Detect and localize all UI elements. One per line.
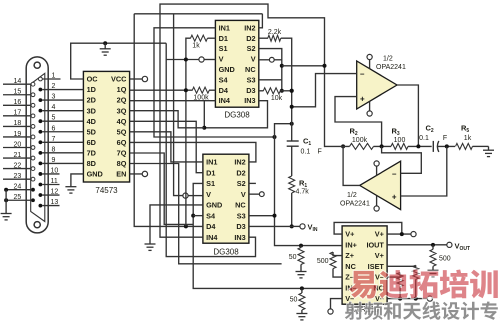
DB25 pin 9	[39, 162, 43, 166]
svg-text:100: 100	[394, 137, 406, 144]
svg-text:IN1: IN1	[206, 158, 217, 167]
wire 2.2k to C1	[281, 38, 292, 141]
svg-text:7: 7	[52, 136, 56, 143]
resistor 50 (IN+)	[298, 248, 304, 265]
stub wire pin 13	[42, 205, 59, 207]
wire IN1 U2 to S3 column	[154, 28, 275, 137]
svg-text:7Q: 7Q	[117, 148, 127, 157]
wire rail A to R2	[325, 145, 350, 147]
wire ISET resistor down	[415, 279, 417, 299]
wire pin9 to 8D	[42, 162, 83, 164]
svg-text:22: 22	[14, 162, 22, 169]
wire V U2 right	[259, 59, 269, 61]
DB25 pin 4	[39, 109, 43, 113]
svg-text:5D: 5D	[87, 127, 96, 136]
svg-text:4.7k: 4.7k	[296, 189, 310, 196]
svg-text:IN4: IN4	[206, 233, 218, 242]
wire D3 U2 to 10k	[259, 90, 264, 92]
wire R5 to ground	[473, 145, 489, 147]
wire V+ right	[387, 233, 411, 235]
resistor 500 (Z)	[330, 252, 336, 269]
svg-text:IN+: IN+	[345, 240, 357, 249]
junction 100k / bus	[184, 88, 188, 92]
wire S3 U2	[259, 79, 282, 81]
wire ISET	[387, 265, 416, 266]
wire 2Q to IN4 U2	[130, 100, 216, 102]
wire pin 19	[3, 136, 31, 138]
wire pin 22	[3, 168, 31, 170]
svg-text:4: 4	[52, 104, 56, 111]
svg-text:1Q: 1Q	[117, 85, 127, 94]
svg-text:NC: NC	[235, 201, 246, 210]
svg-text:D2: D2	[246, 34, 255, 43]
svg-text:D3: D3	[246, 86, 255, 95]
wire 5Q to IN1 U3	[130, 132, 203, 162]
wire pin6 to 5D	[42, 131, 83, 133]
svg-text:10k: 10k	[271, 95, 283, 102]
wire IN+ row to XTR	[299, 245, 342, 247]
wire EN	[130, 173, 143, 175]
svg-text:24: 24	[14, 184, 22, 191]
wire pin 24	[6, 189, 31, 191]
svg-text:D1: D1	[206, 168, 215, 177]
wire rail A (IN4 U3 to R2 node)	[160, 4, 325, 237]
svg-text:GND: GND	[206, 201, 222, 210]
wire IOUT to VOUT	[387, 244, 447, 246]
svg-text:3: 3	[52, 94, 56, 101]
terminal VIN	[300, 224, 305, 229]
svg-text:14: 14	[14, 78, 22, 85]
svg-text:V: V	[219, 55, 224, 64]
svg-text:17: 17	[14, 110, 22, 117]
ground (74573)	[65, 186, 76, 188]
wire V- row5	[387, 273, 400, 278]
junction rail A / V row	[323, 64, 327, 68]
svg-text:+: +	[392, 193, 397, 202]
stub wire pin 1	[42, 78, 60, 80]
wire IN- row to XTR	[340, 287, 342, 289]
svg-text:IOUT: IOUT	[366, 240, 384, 249]
terminal (V- right)	[427, 296, 432, 301]
svg-text:20: 20	[14, 141, 22, 148]
svg-text:S4: S4	[206, 211, 216, 220]
svg-text:5: 5	[52, 115, 56, 122]
junction S4 U3	[191, 214, 195, 218]
resistor 1k	[191, 35, 208, 41]
svg-text:D2: D2	[236, 168, 245, 177]
wire V terminal to U3	[188, 195, 203, 197]
wire S3 U3	[249, 215, 275, 217]
DB25 pin 11	[39, 183, 43, 187]
svg-text:DG308: DG308	[213, 248, 239, 257]
svg-text:OPA2241: OPA2241	[340, 201, 370, 208]
wire pin 20	[3, 147, 31, 149]
ground (top rail)	[104, 43, 106, 49]
wire 4Q to D1 U3	[130, 121, 203, 172]
svg-text:F: F	[443, 135, 447, 142]
svg-text:21: 21	[14, 152, 22, 159]
wire pin8 to 7D	[42, 152, 83, 154]
wire pin 17	[3, 115, 31, 117]
DB25 pin 3	[39, 98, 43, 102]
junction 10k / C1 column	[290, 89, 294, 93]
DB25 pin 20 (open)	[31, 146, 35, 150]
junction top rail / ground	[103, 41, 107, 45]
wire op-amp2 + input	[401, 146, 447, 196]
terminal V (U3 left)	[183, 193, 188, 198]
svg-text:4D: 4D	[87, 117, 96, 126]
svg-text:1/2: 1/2	[347, 192, 357, 199]
wire D2 U2 to 2.2k	[259, 37, 268, 39]
DB25 pin 25	[31, 198, 35, 202]
wire pin 18	[3, 125, 31, 127]
svg-text:15: 15	[14, 89, 22, 96]
wire V- bottom row	[387, 298, 427, 300]
wire 10k node to op-amp1 minus	[292, 74, 357, 107]
wire pin 25	[6, 199, 31, 201]
DB25 pin 8	[39, 151, 43, 155]
resistor 2.2k	[268, 35, 281, 41]
wire rail B drop to D4 U3	[134, 14, 203, 227]
svg-text:–: –	[360, 70, 365, 79]
DB25 top mounting hole	[34, 62, 40, 68]
junction 10k row	[280, 89, 284, 93]
wire ground rail to IN3 U3	[166, 43, 255, 256]
svg-text:IN3: IN3	[244, 96, 255, 105]
wire V U3 right	[249, 193, 259, 195]
DB25 pin 12	[39, 193, 43, 197]
svg-text:NC: NC	[245, 65, 256, 74]
op-amp U4b 1/2 OPA2241	[360, 161, 401, 209]
wire op-amp2 output to R2 node	[343, 146, 360, 185]
wire S4 U3	[193, 215, 203, 217]
svg-text:IN1: IN1	[219, 23, 230, 32]
DB25 inner D-face outline	[31, 73, 45, 221]
svg-text:50: 50	[290, 297, 298, 304]
wire 6Q to IN2 U3	[130, 142, 256, 162]
svg-text:DG308: DG308	[224, 111, 250, 120]
DB25 pin 2	[39, 88, 43, 92]
wire V terminal to U2	[204, 59, 215, 61]
analog switch U2 DG308	[215, 20, 258, 107]
junction pin 25	[4, 198, 8, 202]
junction V row / bus	[184, 58, 188, 62]
wire R2 to R3	[374, 145, 392, 147]
svg-text:2Q: 2Q	[117, 96, 127, 105]
wire C2 to R5	[438, 145, 455, 147]
svg-text:–: –	[392, 170, 397, 179]
DB25 pin 22 (open)	[31, 167, 35, 171]
wire VIN to terminal	[292, 225, 300, 227]
resistor R5 1k	[456, 143, 473, 149]
wire S2 U2 box	[259, 49, 282, 91]
DB25 pin 21 (open)	[31, 156, 35, 160]
wire R3 to C2	[408, 145, 432, 147]
DB25 pin 18 (open)	[31, 125, 35, 129]
terminal V+ supply	[411, 232, 416, 237]
DB25 pin 19 (open)	[31, 135, 35, 139]
svg-text:23: 23	[14, 173, 22, 180]
junction R2 left / op-amp2 output	[341, 144, 345, 148]
wire pin5 to 4D	[42, 120, 83, 122]
junction C1 column / S3 branch	[290, 122, 294, 126]
wire V terminal to box	[274, 59, 282, 61]
terminal V (U2 right)	[269, 57, 274, 62]
svg-text:0.1: 0.1	[419, 135, 429, 142]
DB25 pin 15 (open)	[31, 93, 35, 97]
junction V terminal row	[280, 64, 284, 68]
junction wire C / S3 column	[273, 135, 277, 139]
wire IN4-IN3 loop U2	[204, 101, 267, 128]
terminal EN	[142, 171, 147, 176]
wire rail B	[134, 13, 262, 15]
wire 1Q to 100k	[130, 89, 193, 91]
junction S3 column	[273, 214, 277, 218]
svg-text:0.1: 0.1	[301, 149, 311, 156]
DB25 pin 5	[39, 119, 43, 123]
ground (50 IN+)	[296, 271, 307, 273]
wire V- resistor down	[399, 287, 401, 300]
svg-text:ISET: ISET	[368, 262, 385, 271]
wire 8Q	[130, 164, 282, 264]
ground (DB25 pins 24-25)	[1, 213, 12, 215]
capacitor C1	[287, 140, 299, 142]
junction R2/R3 feedback node	[380, 144, 384, 148]
svg-text:S1: S1	[206, 179, 215, 188]
svg-text:S3: S3	[247, 75, 256, 84]
wire S1 U3 to IN- row	[193, 183, 340, 288]
svg-text:1/2: 1/2	[383, 56, 393, 63]
svg-text:2: 2	[52, 83, 56, 90]
svg-text:4Q: 4Q	[117, 117, 127, 126]
wire 1k-100k bus	[186, 38, 191, 226]
stub wire pin 12	[42, 194, 59, 196]
svg-text:11: 11	[51, 178, 58, 185]
wire rail B branch to V terminal U3	[174, 14, 183, 196]
svg-text:IN4: IN4	[219, 96, 231, 105]
watermark gray text 射频和天线设计专家	[345, 301, 500, 319]
svg-text:S3: S3	[237, 211, 246, 220]
svg-text:5Q: 5Q	[117, 127, 127, 136]
svg-text:OC: OC	[87, 75, 99, 84]
ground (U3)	[145, 243, 156, 245]
svg-text:+: +	[360, 95, 365, 104]
DB25 pin 14 (open)	[31, 82, 35, 86]
junction V- row	[398, 297, 402, 301]
svg-text:7D: 7D	[87, 148, 96, 157]
svg-text:S2: S2	[247, 44, 256, 53]
ground (50 IN-)	[296, 313, 307, 315]
svg-text:NC: NC	[345, 262, 356, 271]
wire Z+ to 500	[333, 252, 342, 256]
DB25 pin 23 (open)	[31, 177, 35, 181]
svg-text:74573: 74573	[95, 186, 118, 195]
svg-text:13: 13	[51, 199, 59, 206]
U4a bottom supply terminal	[369, 102, 371, 112]
wire rail B to IN2 U2	[259, 14, 263, 28]
wire pin2 to 1D	[42, 89, 83, 91]
wire pin7 to 6D	[42, 141, 83, 143]
resistor 50 (IN-)	[299, 293, 305, 310]
resistor 100k	[192, 87, 209, 93]
ground (R5)	[488, 146, 490, 150]
junction V- row 2	[414, 297, 418, 301]
svg-text:V+: V+	[345, 230, 354, 239]
junction 10k row / C1 column	[290, 89, 294, 93]
svg-text:18: 18	[14, 120, 22, 127]
resistor R2 100k	[350, 143, 374, 149]
svg-text:16: 16	[14, 99, 22, 106]
svg-text:25: 25	[14, 194, 22, 201]
DB25 pin 24	[31, 188, 35, 192]
stub wire pin 10	[42, 173, 59, 175]
watermark red text 易迪拓培训	[349, 270, 498, 299]
svg-text:Z+: Z+	[345, 251, 354, 260]
DB25 pin 13	[39, 204, 43, 208]
wire C1 to R1	[291, 146, 293, 176]
resistor 500 (ISET)	[413, 265, 419, 279]
svg-text:6: 6	[52, 125, 56, 132]
svg-text:GND: GND	[219, 65, 235, 74]
svg-text:D4: D4	[219, 86, 229, 95]
wire op-amp1 output down	[397, 85, 418, 146]
DB25 pin 1 (open)	[39, 77, 43, 81]
svg-text:D4: D4	[206, 222, 216, 231]
DB25 pin 10	[39, 172, 43, 176]
wire 500 to Z-	[333, 269, 342, 278]
latch U1 74573	[83, 71, 129, 182]
DB25 pin 17 (open)	[31, 114, 35, 118]
svg-text:IN2: IN2	[234, 158, 245, 167]
junction pin 24	[4, 188, 8, 192]
wire pin 21	[3, 157, 31, 159]
junction R3/C2 op-amp1 out	[416, 144, 420, 148]
junction VOUT / 500	[431, 243, 435, 247]
DB25 parallel-port connector J1	[26, 57, 48, 233]
junction 3Q / loop	[202, 126, 206, 130]
svg-text:8Q: 8Q	[117, 159, 127, 168]
wire 3Q to loop	[130, 111, 205, 128]
U4b top supply terminal	[376, 166, 378, 176]
svg-text:8: 8	[52, 146, 56, 153]
wire V+ loop over top	[334, 222, 402, 234]
wire pin 14	[3, 83, 31, 85]
svg-text:EN: EN	[116, 170, 126, 179]
resistor 10k	[263, 88, 280, 94]
junction VIN node	[290, 224, 294, 228]
svg-text:500: 500	[317, 258, 329, 265]
ground (VOUT 500)	[428, 269, 439, 271]
wire S2 U3 stub	[249, 182, 256, 184]
wire pin 23	[3, 178, 31, 180]
svg-text:6D: 6D	[87, 138, 96, 147]
svg-text:500: 500	[439, 256, 451, 263]
junction C1 column / op-amp branch	[290, 105, 294, 109]
wire 1k to D1 U2	[208, 37, 216, 39]
svg-text:V: V	[206, 190, 211, 199]
stub wire pin 11	[42, 184, 59, 186]
capacitor C2	[432, 141, 434, 152]
wire V- left	[331, 299, 343, 309]
junction D4 U3 / 1k-100k bus	[184, 224, 188, 228]
junction 50 ohm IN-	[300, 286, 304, 290]
svg-text:2.2k: 2.2k	[268, 29, 282, 36]
svg-text:V: V	[251, 55, 256, 64]
svg-text:D3: D3	[236, 222, 245, 231]
wire pin4 to 3D	[42, 110, 83, 112]
svg-text:F: F	[318, 149, 322, 156]
wire op-amp2 - input to R2/R3 node	[382, 146, 422, 173]
wire VCC	[130, 78, 143, 80]
svg-text:1k: 1k	[192, 43, 200, 50]
wire V row to rail A	[282, 65, 325, 67]
svg-text:OPA2241: OPA2241	[376, 64, 406, 71]
svg-text:3D: 3D	[87, 106, 96, 115]
svg-text:50: 50	[289, 254, 297, 261]
terminal V (U3 right)	[259, 192, 264, 197]
DB25 pin 7	[39, 140, 43, 144]
analog switch U3 DG308	[203, 154, 249, 243]
terminal VCC	[142, 76, 147, 81]
svg-text:8D: 8D	[87, 159, 96, 168]
wire 7Q	[130, 153, 194, 224]
resistor R3 100	[391, 143, 408, 149]
DB25 bottom mounting hole	[34, 222, 40, 228]
resistor 500 (VOUT)	[430, 249, 436, 266]
junction C2/R5 op-amp2 + node	[445, 144, 449, 148]
V-to-I converter U5 XTR110	[342, 226, 387, 304]
svg-text:V+: V+	[375, 251, 384, 260]
wire op-amp1 + input to R2/R3 node	[335, 97, 382, 147]
svg-text:VCC: VCC	[111, 75, 127, 84]
wire 10k right	[280, 90, 291, 92]
terminal VOUT	[447, 242, 452, 247]
wire GND U3 to ground	[150, 205, 203, 244]
svg-text:2D: 2D	[87, 96, 96, 105]
svg-text:IN3: IN3	[234, 233, 245, 242]
wire R1 to VIN node	[291, 193, 293, 226]
terminal (V- left)	[328, 309, 333, 314]
U4b bottom supply terminal	[376, 196, 378, 206]
terminal V (U2 left)	[199, 57, 204, 62]
svg-text:S1: S1	[219, 44, 228, 53]
op-amp U4a 1/2 OPA2241	[357, 61, 397, 109]
junction V+	[400, 232, 404, 236]
wire pin3 to 2D	[42, 99, 83, 101]
svg-text:V+: V+	[375, 230, 384, 239]
junction 50 ohm IN+	[299, 244, 303, 248]
DB25 pin 6	[39, 130, 43, 134]
svg-text:9: 9	[52, 157, 56, 164]
svg-text:S2: S2	[237, 179, 246, 188]
svg-text:100k: 100k	[352, 137, 368, 144]
wire 100k to D4 U2	[209, 89, 215, 91]
svg-text:12: 12	[51, 189, 59, 196]
svg-text:1D: 1D	[87, 85, 96, 94]
U4a top supply terminal	[369, 60, 371, 69]
svg-text:D1: D1	[219, 34, 228, 43]
wire to ground	[5, 190, 7, 214]
wire GND 74573	[71, 174, 84, 187]
resistor 500 (V-)	[397, 273, 403, 287]
svg-text:3Q: 3Q	[117, 106, 127, 115]
svg-text:6Q: 6Q	[117, 138, 127, 147]
svg-text:GND: GND	[87, 170, 103, 179]
svg-text:V: V	[241, 190, 246, 199]
resistor R1 4.7k	[289, 176, 295, 193]
DB25 pin 16 (open)	[31, 103, 35, 107]
wire S3 column	[275, 124, 300, 246]
